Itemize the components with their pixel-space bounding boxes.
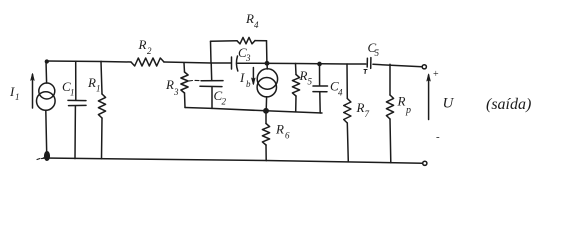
wire R3 bottom lead [184,93,187,108]
capacitor C5 [366,58,368,67]
resistor R4 [237,37,255,43]
svg-text:U: U [443,96,455,112]
resistor R3 [181,72,188,93]
wire source top lead [266,63,268,69]
svg-text:b: b [246,79,251,89]
wire R3 top lead [183,63,186,72]
svg-text:7: 7 [365,109,370,119]
wire R7 bottom lead [347,123,348,162]
wire C4 top lead [319,64,321,86]
capacitor C3 [231,57,233,69]
svg-text:R: R [356,100,365,115]
svg-text:R: R [138,37,147,52]
svg-text:5: 5 [308,77,313,87]
wire R6 bottom lead [265,145,267,161]
arrow I1 direction [32,75,34,109]
wire source bottom lead [265,97,267,111]
arrow Ib direction [252,68,254,84]
wire sub-rail [185,108,322,114]
svg-text:R: R [87,75,96,90]
node bottom-left junction dot [45,152,50,160]
wire R6 top lead [265,111,267,124]
svg-text:2: 2 [222,97,227,107]
node sub-rail / R6 junction dot [264,109,268,113]
wire top main right of C5 [373,64,422,67]
svg-text:3: 3 [173,87,179,97]
wire R5 bottom lead [295,96,297,112]
svg-text:4: 4 [338,88,343,98]
svg-text:4: 4 [254,20,259,30]
svg-text:(saída): (saída) [486,96,531,113]
wire top main middle segment [164,62,231,63]
resistor R8 [386,95,393,119]
svg-text:p: p [405,105,411,116]
svg-text:R: R [245,11,254,26]
svg-text:1: 1 [96,84,101,94]
wire C2 top lead [210,63,213,80]
node top-left corner [45,60,48,63]
wire C2 bottom lead [211,87,213,109]
resistor R2 [131,58,164,66]
capacitor C2 [189,79,199,82]
resistor R6 [262,124,269,146]
capacitor C4 [313,85,328,87]
svg-text:3: 3 [245,53,251,63]
current source I1 [39,83,55,99]
svg-text:R: R [165,77,174,92]
svg-text:+: + [433,69,439,80]
wire R7 top lead [346,64,348,99]
svg-text:R: R [275,122,284,137]
wire feedback right vertical [266,41,268,63]
node C4 top junction [318,62,321,65]
wire R1 bottom lead [101,118,104,159]
node main wire / source top [265,62,268,65]
svg-text:5: 5 [375,48,380,58]
wire feedback top right [255,40,267,42]
wire C4 bottom lead [319,92,321,113]
resistor R5 [292,75,299,97]
wire top main left segment [46,61,131,62]
node bottom-right terminal [423,161,427,165]
node top-right terminal [422,65,426,69]
wire left vertical above source [45,61,48,83]
capacitor C1 [68,99,86,101]
resistor R1 [98,94,105,118]
wire C1 bottom lead [74,106,76,159]
wire top main right of C3 [238,62,366,65]
resistor R7 [344,99,351,124]
svg-text:I: I [239,70,245,85]
wire bottom-left stub [37,158,44,159]
wire C1 top lead [75,61,77,100]
svg-text:1: 1 [15,92,20,102]
wire feedback left vertical [210,41,213,63]
svg-text:R: R [299,68,308,83]
wire bottom main [44,158,423,163]
wire R1 top lead [101,61,102,94]
svg-text:6: 6 [285,131,290,141]
wire left vertical below source [46,110,47,158]
svg-text:1: 1 [70,88,75,98]
arrow output voltage [428,75,430,120]
wire R8 bottom lead [389,119,392,163]
wire feedback top left [211,40,238,42]
wire R5 top lead [295,64,298,75]
svg-text:-: - [436,131,440,143]
wire R8 top lead [389,64,391,95]
current source Ib [257,69,277,89]
svg-text:2: 2 [147,46,152,56]
svg-text:R: R [397,94,406,109]
